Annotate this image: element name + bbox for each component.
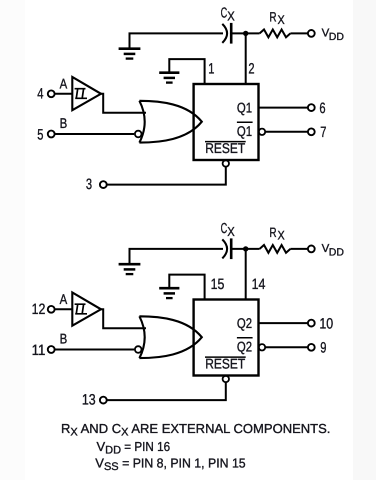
svg-text:R: R <box>269 225 276 240</box>
wire: VSS ground to capacitor C2 rail <box>130 249 224 264</box>
wire: buffer output to OR gate A input <box>100 309 146 328</box>
ground (pin 1, circuit 1) <box>159 73 179 83</box>
svg-text:A: A <box>60 76 68 92</box>
svg-text:Q1: Q1 <box>237 123 252 139</box>
wire: resistor to VDD terminal <box>290 32 308 34</box>
svg-text:C: C <box>221 221 228 237</box>
terminal pin 5 (B input) <box>48 131 55 138</box>
terminal pin 4 (A input) <box>48 90 55 97</box>
svg-text:Q1: Q1 <box>237 99 252 115</box>
svg-text:4: 4 <box>37 86 43 103</box>
svg-text:DD: DD <box>329 31 345 43</box>
svg-text:1: 1 <box>208 60 214 77</box>
ground (pin 15, circuit 2) <box>159 288 179 298</box>
wire: pin 4 to Schmitt buffer <box>55 93 73 95</box>
terminal pin 12 (A input) <box>48 306 55 313</box>
wire: junction down to pin 2 of block <box>245 33 247 84</box>
svg-text:2: 2 <box>248 60 254 77</box>
resistor RX (circuit 2) <box>260 245 291 253</box>
monostable block U1 <box>194 84 259 160</box>
svg-text:15: 15 <box>211 276 225 293</box>
wire: capacitor to resistor junction <box>232 248 259 250</box>
monostable block U2 <box>194 300 259 376</box>
wire: Q1 output to pin 6 <box>259 107 308 109</box>
svg-text:X: X <box>227 224 235 239</box>
junction: node pin 2 <box>243 31 248 36</box>
svg-text:5: 5 <box>37 126 43 143</box>
resistor RX (circuit 1) <box>260 30 291 38</box>
svg-text:B: B <box>60 330 68 346</box>
capacitor CX (circuit 2) <box>222 238 231 259</box>
terminal VDD (circuit 1) <box>308 30 315 37</box>
ground (CX return, circuit 2) <box>119 264 141 274</box>
svg-text:R: R <box>269 9 276 24</box>
terminal pin 11 (B input) <box>48 346 55 353</box>
wire: RESET bubble to pin 3 <box>107 167 226 185</box>
svg-text:B: B <box>60 115 68 131</box>
OR gate (trigger logic, circuit 2) <box>139 316 201 358</box>
OR gate (trigger logic, circuit 1) <box>139 101 201 143</box>
svg-text:3: 3 <box>86 176 92 193</box>
wire: pin 11 to B input bubble <box>55 349 134 351</box>
svg-text:Q2: Q2 <box>237 315 252 331</box>
terminal pin 3 <box>100 181 107 188</box>
inverter bubble on Q1-bar output <box>259 129 265 135</box>
wire: RESET bubble to pin 13 <box>107 382 226 400</box>
svg-text:RX AND CX ARE EXTERNAL COMPONE: RX AND CX ARE EXTERNAL COMPONENTS. <box>61 421 330 439</box>
wire: Q2 output to pin 10 <box>259 322 308 324</box>
inverter bubble on Q2-bar output <box>259 344 265 350</box>
wire: ground to pin 1 of block <box>169 59 204 84</box>
svg-text:A: A <box>60 291 68 307</box>
inverter bubble on RESET input <box>223 376 229 382</box>
inverter bubble on RESET input <box>223 160 229 166</box>
terminal pin 9 <box>308 344 315 351</box>
wire: Q2-bar to pin 9 <box>265 346 308 348</box>
ground (CX return, circuit 1) <box>119 49 141 59</box>
inverter bubble on B input <box>135 346 142 353</box>
svg-text:X: X <box>278 229 286 243</box>
inverter bubble on B input <box>135 131 142 138</box>
svg-text:11: 11 <box>32 342 46 359</box>
Schmitt trigger buffer U2A <box>72 293 101 326</box>
svg-text:6: 6 <box>319 100 325 117</box>
svg-text:RESET: RESET <box>205 356 245 372</box>
terminal pin 6 <box>308 104 315 111</box>
svg-text:X: X <box>278 13 286 27</box>
wire: pin 5 to B input bubble <box>55 133 134 135</box>
wire: buffer output to OR gate A input <box>100 94 146 113</box>
svg-text:X: X <box>227 9 235 24</box>
svg-text:14: 14 <box>252 276 266 293</box>
label RESET (active low) <box>205 356 246 372</box>
svg-text:Q2: Q2 <box>237 339 252 355</box>
svg-text:DD: DD <box>329 246 345 258</box>
wire: capacitor to resistor junction <box>232 32 259 34</box>
label Q1-bar <box>237 122 253 139</box>
terminal VDD (circuit 2) <box>308 246 315 253</box>
label Q2-bar <box>237 338 253 355</box>
svg-text:7: 7 <box>320 124 326 141</box>
wire: pin 12 to Schmitt buffer <box>55 308 73 310</box>
wire: Q1-bar to pin 7 <box>265 131 308 133</box>
label RESET (active low) <box>205 140 246 156</box>
svg-text:12: 12 <box>32 301 46 318</box>
capacitor CX (circuit 1) <box>222 23 231 44</box>
svg-text:13: 13 <box>82 392 96 409</box>
wire: resistor to VDD terminal <box>290 248 308 250</box>
wire: junction down to pin 14 of block <box>245 249 247 300</box>
junction: node pin 14 <box>243 246 248 251</box>
svg-text:9: 9 <box>320 340 326 357</box>
Schmitt trigger buffer U1A <box>72 77 101 110</box>
terminal pin 13 <box>100 397 107 404</box>
terminal pin 10 <box>308 320 315 327</box>
svg-text:C: C <box>221 5 228 21</box>
wire: ground to pin 15 of block <box>169 275 204 300</box>
svg-text:10: 10 <box>319 315 333 332</box>
wire: VSS ground to capacitor C1 rail <box>130 33 224 48</box>
terminal pin 7 <box>308 128 315 135</box>
svg-text:RESET: RESET <box>205 140 245 156</box>
